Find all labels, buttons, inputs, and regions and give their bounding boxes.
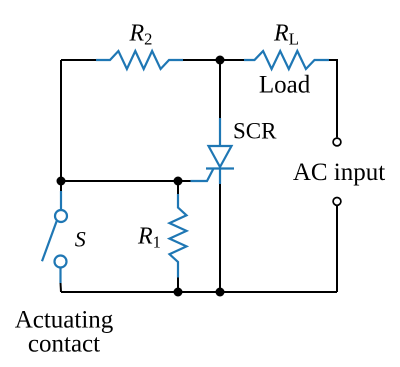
wire: middle horizontal (left node to R1 node) xyxy=(61,180,178,182)
svg-text:contact: contact xyxy=(28,331,100,358)
wire: top-left horizontal segment (left corner to R2 left lead) xyxy=(61,59,96,61)
svg-text:RL: RL xyxy=(273,21,299,49)
junction dot: top node (220,60) xyxy=(216,56,225,65)
svg-text:AC input: AC input xyxy=(293,159,385,186)
resistor R2 (blue zigzag, horizontal, top wire) xyxy=(96,51,183,69)
resistor RL (blue zigzag, horizontal, load) xyxy=(244,51,329,69)
wire: left vertical (top-left corner down to middle node) xyxy=(60,60,62,181)
wire: top-right corner down to upper AC terminal xyxy=(329,60,337,137)
wire: switch top lead (black above, blue below) xyxy=(60,181,62,191)
wire: SCR branch black lower segment (cathode to bottom node) xyxy=(219,184,221,292)
wire: R1 bottom lead (black stub to bottom node) xyxy=(177,278,179,293)
resistor R1 (blue zigzag, vertical) xyxy=(170,194,187,278)
wire: switch bottom lead to bottom-left corner xyxy=(60,283,63,292)
switch S (blue knife switch) xyxy=(42,191,67,283)
SCR (thyristor symbol, blue) xyxy=(191,118,235,184)
junction dot: SCR bottom node (220,292) xyxy=(216,288,225,297)
wire: SCR branch black upper segment (top node down to anode lead) xyxy=(219,60,221,118)
junction dot: gate node (178,181) xyxy=(174,177,183,186)
wire: lower AC terminal down to bottom wire xyxy=(336,206,338,292)
terminal: upper AC input (open circle) xyxy=(333,138,341,146)
junction dot: left middle node (61,181) xyxy=(57,177,66,186)
svg-text:Actuating: Actuating xyxy=(15,307,114,334)
svg-text:S: S xyxy=(75,227,86,252)
terminal: lower AC input (open circle) xyxy=(333,198,341,206)
wire: bottom horizontal xyxy=(61,291,337,293)
svg-text:R2: R2 xyxy=(129,21,153,49)
junction dot: R1 bottom node (178,292) xyxy=(174,288,183,297)
wire: top middle horizontal (R2 right lead to junction, to RL left lead) xyxy=(183,59,244,61)
svg-text:SCR: SCR xyxy=(233,119,277,144)
wire: R1 top lead (black stub from gate node) xyxy=(177,181,179,194)
svg-text:R1: R1 xyxy=(137,224,161,252)
svg-text:Load: Load xyxy=(259,72,311,99)
wire: gate black stub (node to blue gate lead) xyxy=(178,180,191,182)
